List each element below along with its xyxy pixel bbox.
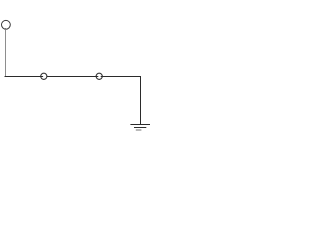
- ground bar 3: [136, 129, 142, 131]
- wire from port down: [5, 29, 7, 76]
- wire horizontal segment 3: [101, 76, 141, 78]
- wire horizontal segment 1: [5, 76, 44, 78]
- wire from port down (junction stub): [5, 28, 7, 30]
- wire down to ground: [140, 76, 142, 125]
- node B: [96, 73, 102, 79]
- ground bar 1: [130, 124, 150, 126]
- node A: [41, 73, 47, 79]
- wire horizontal segment 2: [47, 76, 99, 78]
- ground bar 2: [134, 127, 146, 129]
- port P1: [2, 20, 11, 29]
